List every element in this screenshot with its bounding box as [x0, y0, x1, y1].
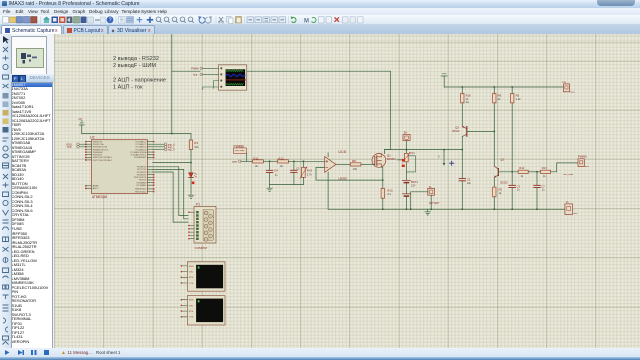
- junction: [293, 161, 295, 163]
- scope input terminal B: [193, 73, 218, 76]
- MCU pin stubs right: [147, 142, 152, 192]
- svg-text:P1: P1: [196, 202, 200, 206]
- svg-text:TXD: TXD: [188, 272, 193, 274]
- PWMB net label: [232, 144, 247, 163]
- led D1 red: [188, 163, 196, 195]
- svg-text:BD140: BD140: [452, 131, 460, 133]
- wire RC bottom bus: [269, 184, 303, 186]
- svg-text:1.4k: 1.4k: [515, 97, 521, 101]
- transistor Q3 BD140: [452, 126, 494, 150]
- svg-text:вых_шим: вых_шим: [563, 174, 573, 176]
- svg-text:RXD: RXD: [188, 266, 193, 268]
- svg-text:вых-: вых-: [573, 213, 578, 215]
- svg-text:1k: 1k: [520, 175, 523, 178]
- svg-text:1n: 1n: [516, 189, 519, 192]
- junction: [461, 209, 463, 211]
- ground RC filter: [266, 185, 272, 192]
- resistor R6: [492, 87, 501, 166]
- resistor R11: [252, 156, 263, 168]
- wire long vertical from top to VCC rail: [170, 35, 172, 134]
- svg-text:TXD: TXD: [188, 305, 193, 307]
- svg-text:BD139: BD139: [500, 182, 508, 184]
- svg-text:вых: вых: [584, 166, 589, 168]
- wire Q1 drain top rail: [384, 149, 462, 151]
- wire MCU PD1 to P1: [152, 169, 187, 218]
- junction: [443, 149, 445, 151]
- junction: [430, 209, 432, 211]
- svg-text:?: ?: [109, 17, 112, 23]
- capacitor C2: [459, 150, 472, 210]
- svg-text:R8: R8: [352, 159, 356, 163]
- svg-text:1k: 1k: [543, 175, 546, 178]
- svg-text:RTS: RTS: [188, 311, 193, 313]
- svg-text:RTS: RTS: [188, 277, 193, 279]
- toolbar icons: [0, 15, 640, 26]
- wire Q1 drain stub: [384, 150, 390, 154]
- terminal B-: [410, 185, 439, 210]
- svg-text:Q2: Q2: [500, 158, 504, 162]
- svg-text:R3: R3: [194, 141, 198, 145]
- ground rail bottom: [328, 208, 565, 210]
- svg-text:PB1/OC1A: PB1/OC1A: [92, 143, 103, 146]
- ground at battery: [424, 209, 430, 215]
- wire MCU PD2 to P1: [152, 172, 187, 222]
- svg-text:шим: шим: [232, 160, 237, 163]
- virtual terminal VT1: [180, 262, 224, 291]
- terminal label TXD left of MCU: [66, 146, 86, 150]
- svg-text:R11: R11: [253, 156, 259, 160]
- resistor R8: [350, 159, 361, 171]
- transistor Q1 MOSFET: [372, 154, 396, 168]
- junction: [171, 133, 173, 135]
- terminal U+: [562, 80, 576, 93]
- svg-text:PD7/AIN1: PD7/AIN1: [136, 184, 147, 187]
- wire horizontal to scope/Q1 drain net: [171, 70, 390, 72]
- junction: [493, 209, 495, 211]
- capacitor C5: [290, 161, 299, 184]
- battery BAT1: [402, 180, 418, 210]
- capacitor C4: [266, 161, 278, 184]
- svg-text:4k: 4k: [280, 164, 283, 168]
- svg-text:R16: R16: [465, 93, 471, 97]
- svg-text:M: M: [304, 18, 309, 24]
- svg-text:1 АЦП - ток: 1 АЦП - ток: [113, 85, 143, 91]
- current probe arrow: [438, 150, 445, 166]
- svg-text:вых+: вых+: [570, 91, 576, 93]
- svg-text:2 выводF - ШИМ: 2 выводF - ШИМ: [113, 63, 156, 69]
- junction: [405, 209, 407, 211]
- svg-text:Q1: Q1: [386, 154, 390, 158]
- svg-text:AVCC: AVCC: [92, 187, 98, 190]
- probe plus marker: [449, 161, 453, 165]
- svg-text:PB2/SS/OC1B: PB2/SS/OC1B: [92, 147, 107, 149]
- junction: [536, 171, 538, 173]
- resistor R3: [189, 134, 199, 163]
- svg-text:12V: 12V: [410, 183, 415, 187]
- transistor Q2 BD139: [494, 158, 518, 188]
- ground under LED: [188, 195, 194, 198]
- wire op-amp V- to ground rail: [327, 172, 329, 209]
- svg-text:COMPIM: COMPIM: [194, 246, 207, 250]
- svg-text:R6: R6: [497, 93, 501, 97]
- svg-text:1k: 1k: [498, 191, 501, 195]
- potentiometer RV2: [299, 161, 312, 184]
- svg-text:2.7k: 2.7k: [306, 172, 312, 176]
- terminal B+: [403, 131, 410, 150]
- svg-text:CTS: CTS: [188, 317, 193, 319]
- svg-text:R17: R17: [541, 166, 547, 170]
- scope input terminal A: [191, 67, 218, 70]
- svg-text:PC2/ADC2: PC2/ADC2: [135, 146, 146, 149]
- svg-text:PD5/T1: PD5/T1: [138, 180, 146, 182]
- svg-text:Q3: Q3: [455, 126, 459, 130]
- wire MCU PD0 to P1: [152, 167, 187, 216]
- MCU pin stubs left: [86, 142, 91, 189]
- capacitor C7: [533, 172, 544, 210]
- wire R13 to R17: [528, 171, 540, 173]
- resistor R5: [510, 87, 521, 172]
- junction: [461, 86, 463, 88]
- svg-text:PB7/TOSC2/XTAL2: PB7/TOSC2/XTAL2: [92, 159, 112, 162]
- junction: [190, 162, 192, 164]
- resistor R10: [381, 188, 393, 209]
- wire R12 to op-amp: [288, 160, 320, 162]
- MCU pin names right column: [130, 140, 147, 193]
- window title bar: [0, 0, 640, 8]
- MCU U2 ATMEGA8: [90, 136, 148, 200]
- svg-text:R12: R12: [278, 156, 284, 160]
- svg-text:10k: 10k: [194, 145, 199, 149]
- menu bar: [0, 8, 640, 15]
- junction: [382, 209, 384, 211]
- svg-text:2 АЦП - напряжение: 2 АЦП - напряжение: [113, 78, 166, 84]
- svg-text:2 вывода - RS232: 2 вывода - RS232: [113, 56, 159, 62]
- svg-text:R10: R10: [387, 188, 393, 192]
- svg-text:PB5/SCK: PB5/SCK: [92, 155, 102, 157]
- connector P1 COMPIM DB9: [188, 202, 216, 249]
- power symbol +5V: [79, 121, 84, 134]
- svg-text:C5: C5: [296, 167, 300, 170]
- MCU pin names left column: [92, 141, 112, 190]
- svg-text:3w: 3w: [465, 100, 468, 104]
- junction: [493, 131, 495, 133]
- svg-text:PD6/AIN0: PD6/AIN0: [136, 181, 147, 184]
- terminal labels right of MCU (ADC nets): [152, 143, 175, 147]
- svg-text:4k: 4k: [497, 97, 500, 101]
- svg-text:PWM2: PWM2: [577, 155, 587, 159]
- wire top power rail: [444, 86, 563, 88]
- oscilloscope: [218, 65, 246, 90]
- svg-text:PB6/TOSC1/XTAL1: PB6/TOSC1/XTAL1: [92, 156, 112, 159]
- svg-text:TXD: TXD: [66, 146, 71, 149]
- junction: [511, 86, 513, 88]
- potentiometer RV1: [397, 150, 415, 180]
- resistor R17: [540, 166, 550, 178]
- svg-text:0: 0: [438, 155, 440, 159]
- wire PWMB to R11: [241, 160, 252, 162]
- svg-text:100: 100: [352, 167, 357, 171]
- wire R17 to PWM2: [550, 163, 577, 172]
- svg-text:ATMEGA8: ATMEGA8: [92, 195, 107, 199]
- svg-text:PC5/ADC5/SCL: PC5/ADC5/SCL: [130, 154, 146, 157]
- junction: [409, 209, 411, 211]
- scope input wire D: [202, 87, 218, 90]
- left panel: overview minimap + device list: [11, 34, 54, 348]
- wire R11 to R12: [263, 160, 277, 162]
- svg-text:BAT1: BAT1: [410, 180, 418, 184]
- scope input wire C: [213, 81, 218, 89]
- wire VCC horizontal rail to R3: [81, 133, 190, 135]
- svg-text:зкр_U: зкр_U: [167, 149, 174, 152]
- resistor R16: [460, 87, 471, 126]
- svg-text:PD2/INT0: PD2/INT0: [136, 172, 146, 174]
- svg-text:PWMA: PWMA: [191, 67, 199, 70]
- junction: [461, 149, 463, 151]
- svg-text:RV2: RV2: [306, 169, 312, 173]
- terminal U-: [564, 200, 577, 215]
- svg-text:Imp: Imp: [193, 74, 198, 77]
- svg-text:IRF9540: IRF9540: [386, 159, 396, 161]
- power symbol top rail: [441, 74, 447, 87]
- svg-text:C2: C2: [466, 177, 470, 181]
- svg-text:4k: 4k: [255, 164, 258, 168]
- op-amp U1:B: [320, 150, 347, 181]
- svg-text:PC1/ADC1: PC1/ADC1: [135, 143, 146, 146]
- svg-text:U-: U-: [565, 200, 568, 204]
- junction: [405, 149, 407, 151]
- svg-text:C4: C4: [274, 168, 278, 172]
- svg-text:R2: R2: [498, 187, 502, 191]
- document tabs: [0, 24, 640, 34]
- svg-text:PC3/ADC3: PC3/ADC3: [135, 148, 146, 151]
- status bar: [0, 348, 640, 357]
- junction: [382, 179, 384, 181]
- terminal label RXD left of MCU: [66, 143, 86, 147]
- junction: [493, 86, 495, 88]
- wire Q1 drain vertical: [389, 71, 391, 149]
- svg-text:B-: B-: [429, 185, 432, 189]
- capacitor C3: [509, 172, 520, 210]
- svg-text:RXD: RXD: [188, 300, 193, 302]
- schematic canvas: [54, 34, 640, 348]
- svg-text:PC4/ADC4/SDA: PC4/ADC4/SDA: [130, 151, 146, 154]
- resistor R13: [518, 166, 528, 178]
- terminal PWM2: [577, 155, 589, 168]
- svg-text:B+: B+: [403, 131, 407, 135]
- svg-text:RV1: RV1: [409, 151, 415, 155]
- junction: [511, 171, 513, 173]
- svg-text:U2: U2: [90, 136, 95, 140]
- virtual terminal VT2: [180, 296, 224, 325]
- svg-text:1n: 1n: [274, 173, 277, 177]
- wire op-amp output to R8: [335, 163, 350, 165]
- svg-text:U+: U+: [562, 80, 566, 84]
- wire MCU to R3/LED node: [152, 162, 190, 164]
- svg-text:1n: 1n: [541, 189, 544, 192]
- left tool column: [0, 34, 12, 348]
- wire R8 to Q1 gate: [360, 163, 372, 165]
- annotation note text: [113, 56, 166, 91]
- svg-text:PB6/XTAL1: PB6/XTAL1: [135, 188, 147, 191]
- svg-text:U1:B: U1:B: [338, 150, 346, 154]
- svg-text:R13: R13: [519, 166, 525, 170]
- svg-text:R5: R5: [515, 93, 519, 97]
- junction: [302, 161, 304, 163]
- resistor R2: [492, 187, 502, 209]
- wire Q1 source down: [381, 167, 382, 188]
- junction: [536, 209, 538, 211]
- svg-text:PB7/XTAL2: PB7/XTAL2: [135, 190, 147, 193]
- svg-text:PC6/RESET: PC6/RESET: [134, 157, 147, 159]
- svg-text:0.1: 0.1: [387, 192, 391, 196]
- wire feedback from inverting input: [316, 167, 383, 180]
- svg-text:BATTERY: BATTERY: [429, 202, 440, 205]
- junction: [511, 209, 513, 211]
- svg-text:AREF: AREF: [92, 185, 98, 188]
- svg-text:10n: 10n: [466, 182, 471, 185]
- svg-text:+5V: +5V: [78, 119, 83, 121]
- resistor R12: [277, 156, 288, 168]
- svg-text:PC0/ADC0: PC0/ADC0: [135, 140, 146, 143]
- junction: [268, 161, 270, 163]
- svg-text:CTS: CTS: [188, 283, 193, 285]
